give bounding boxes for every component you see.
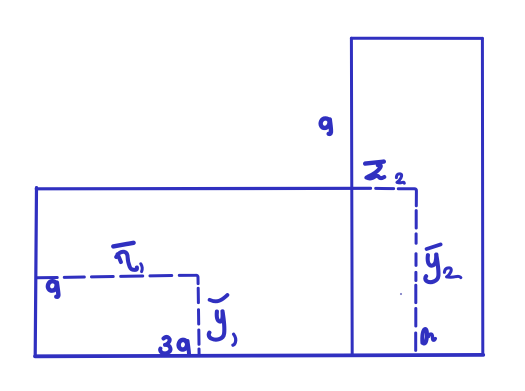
label a (bottom of y2bar dashed line)	[422, 329, 435, 343]
label y2bar (centroid y of rectangle 2)	[425, 244, 440, 282]
label subscript 1 of x1bar	[141, 264, 142, 272]
label subscript 2 of y2bar	[444, 268, 460, 278]
label 3a (width dimension of rectangle 1)	[160, 337, 189, 354]
label x1bar (centroid x of rectangle 1)	[113, 243, 137, 270]
label a (left end of x1bar dashed line)	[48, 281, 59, 297]
label x2bar (centroid x of rectangle 2)	[365, 162, 384, 179]
rectangle 1 (wide left rectangle)	[35, 188, 483, 357]
stray ink dot	[400, 293, 402, 295]
dashed line y2bar (vertical centroid line in rect 2)	[414, 211, 418, 351]
dashed line x2bar (horizontal centroid line in rect 2)	[376, 188, 417, 205]
label subscript 2 of x2bar	[396, 174, 404, 183]
rectangle 2 (tall right rectangle)	[351, 38, 482, 355]
label a (left side of rectangle 2, height dimension)	[321, 118, 331, 133]
dashed line y1bar (vertical centroid line in rect 1)	[197, 288, 201, 355]
label subscript 1 of y1bar	[233, 334, 236, 345]
dashed line x1bar (horizontal centroid line in rect 1)	[37, 275, 198, 283]
label y1bar (centroid y of rectangle 1)	[209, 295, 228, 340]
